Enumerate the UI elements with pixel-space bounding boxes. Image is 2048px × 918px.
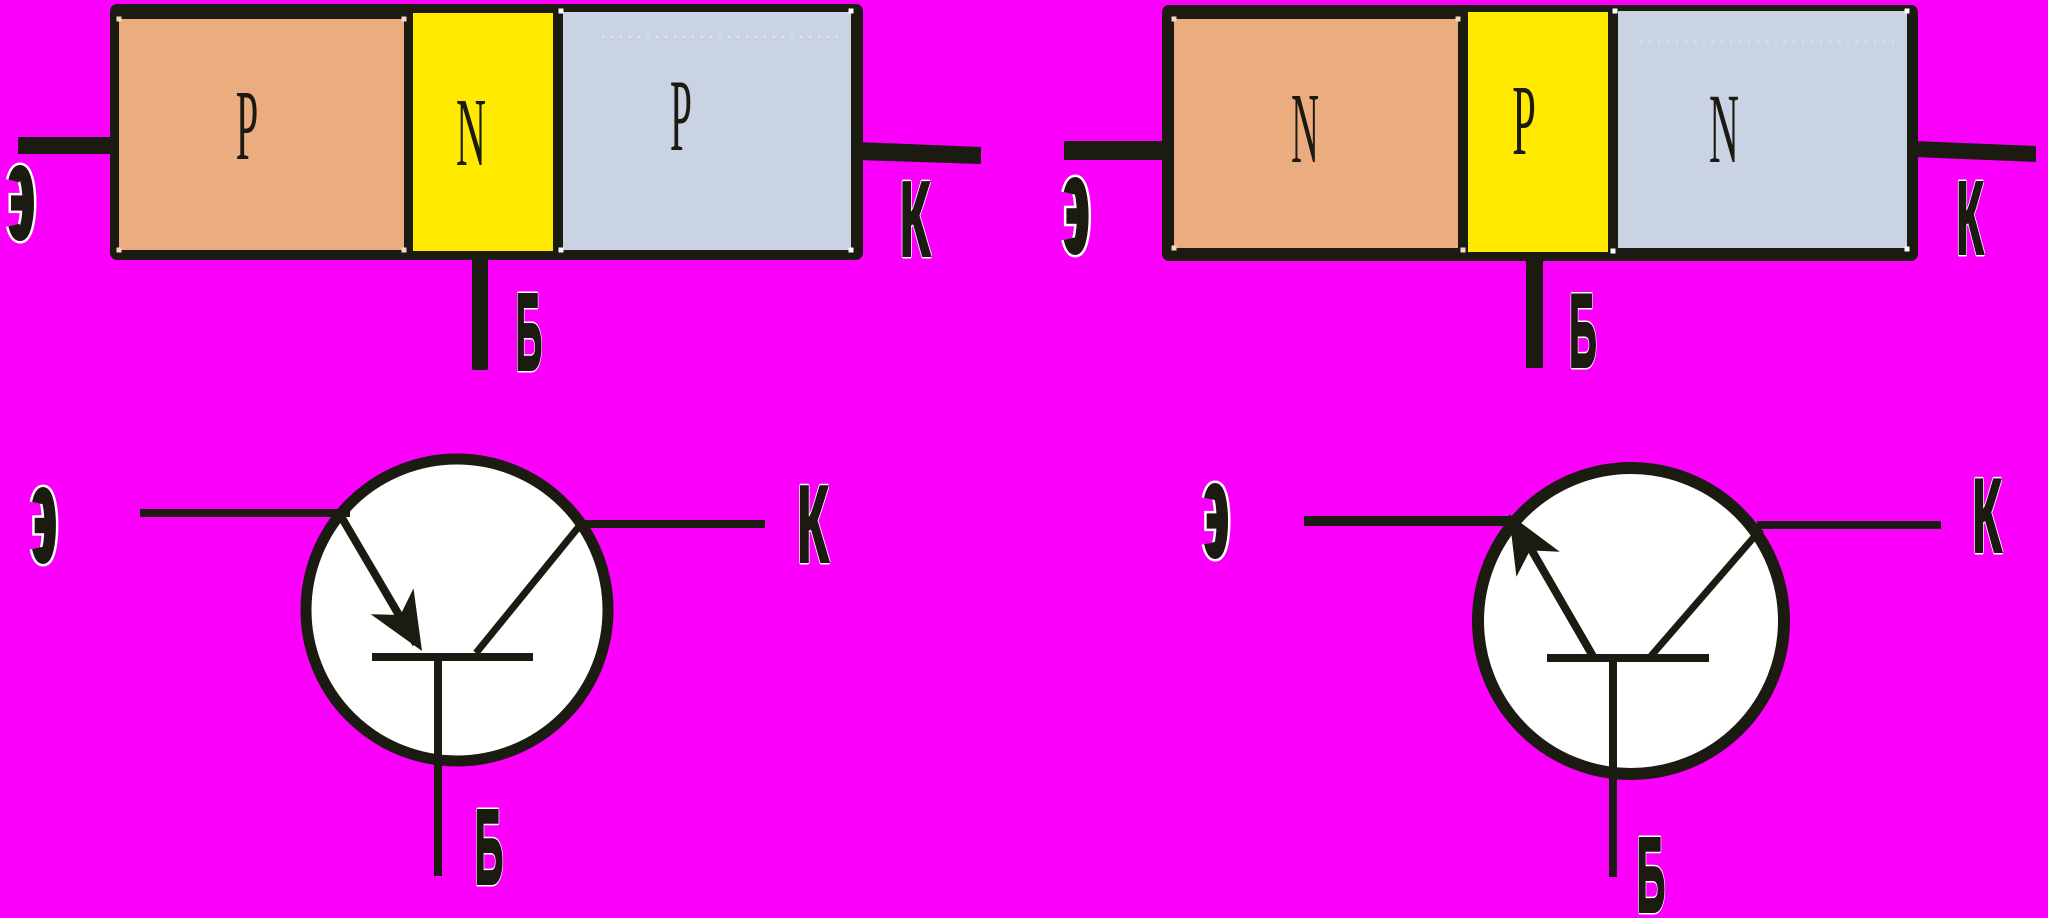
- svg-text:К: К: [797, 465, 829, 586]
- wire: NPN collector lead К: [1914, 141, 2036, 162]
- PNP collector P region: [563, 12, 851, 250]
- pin label К (Q1): [797, 465, 829, 586]
- svg-text:N: N: [1709, 73, 1739, 184]
- wire: NPN base lead Б: [1526, 258, 1543, 368]
- NPN base P region: [1468, 12, 1608, 252]
- svg-text:К: К: [900, 160, 931, 279]
- Q1 collector diagonal: [476, 524, 581, 653]
- Q2 emitter diagonal: [1524, 537, 1594, 658]
- svg-text:Б: Б: [516, 272, 543, 394]
- transistor Q1 PNP symbol: circle body: [306, 459, 608, 761]
- svg-text:Б: Б: [1637, 816, 1666, 918]
- faint dotted artifact line in left blue region: [602, 36, 838, 38]
- selection handles right block: [1172, 9, 1910, 254]
- pin label Б (Q2): [1637, 816, 1666, 918]
- pin label К (PNP structure): [900, 160, 931, 279]
- svg-text:P: P: [236, 70, 258, 182]
- Q2 base bar: [1547, 654, 1709, 662]
- Q2 emitter arrow (points out from base): [1509, 514, 1560, 577]
- wire: PNP base lead Б: [472, 258, 488, 370]
- Q2 collector diagonal: [1651, 529, 1761, 656]
- transistor Q2 NPN symbol: circle body: [1478, 468, 1784, 774]
- faint dotted artifact line in right blue region: [1640, 41, 1900, 43]
- pin label Б (Q1): [475, 788, 504, 906]
- pin label К (NPN structure): [1956, 160, 1984, 275]
- wire: PNP emitter lead Э: [18, 137, 112, 154]
- pin label Э (PNP structure): [9, 171, 29, 236]
- svg-text:N: N: [1291, 72, 1319, 184]
- Q1 emitter diagonal: [339, 513, 416, 644]
- wire: Q1 base lead: [434, 661, 442, 876]
- PNP base N region: [413, 13, 553, 251]
- NPN emitter N region: [1174, 19, 1458, 248]
- NPN collector N region: [1618, 11, 1907, 248]
- svg-text:К: К: [1972, 458, 2002, 575]
- Q1 emitter arrow (points to base): [371, 588, 422, 651]
- wire: NPN emitter lead Э: [1064, 141, 1168, 160]
- svg-text:P: P: [670, 59, 692, 173]
- pin label К (Q2): [1972, 458, 2002, 575]
- NPN structure block: outer black frame: [1162, 5, 1918, 261]
- svg-text:P: P: [1512, 64, 1536, 176]
- wire: PNP collector lead К: [857, 142, 981, 164]
- PNP emitter P region: [119, 19, 404, 250]
- pin label Э (NPN structure): [1064, 183, 1083, 249]
- wire: Q2 emitter horizontal: [1304, 516, 1512, 526]
- pin label Э (Q2): [1204, 489, 1222, 554]
- PNP structure block: outer black frame: [110, 4, 863, 260]
- pin label Б (PNP structure): [516, 272, 543, 394]
- svg-text:Б: Б: [475, 788, 504, 906]
- wire: Q2 collector horizontal: [1757, 521, 1941, 529]
- svg-text:К: К: [1956, 160, 1984, 275]
- Q1 base bar: [372, 653, 533, 661]
- pin label Б (NPN structure): [1569, 272, 1597, 389]
- wire: Q1 emitter horizontal: [140, 509, 350, 517]
- wire: Q2 base lead: [1609, 662, 1617, 877]
- svg-text:Б: Б: [1569, 272, 1597, 389]
- wire: Q1 collector horizontal: [578, 520, 765, 528]
- pin label Э (Q1): [32, 493, 50, 558]
- selection handles left block: [117, 9, 854, 253]
- svg-text:N: N: [456, 79, 486, 187]
